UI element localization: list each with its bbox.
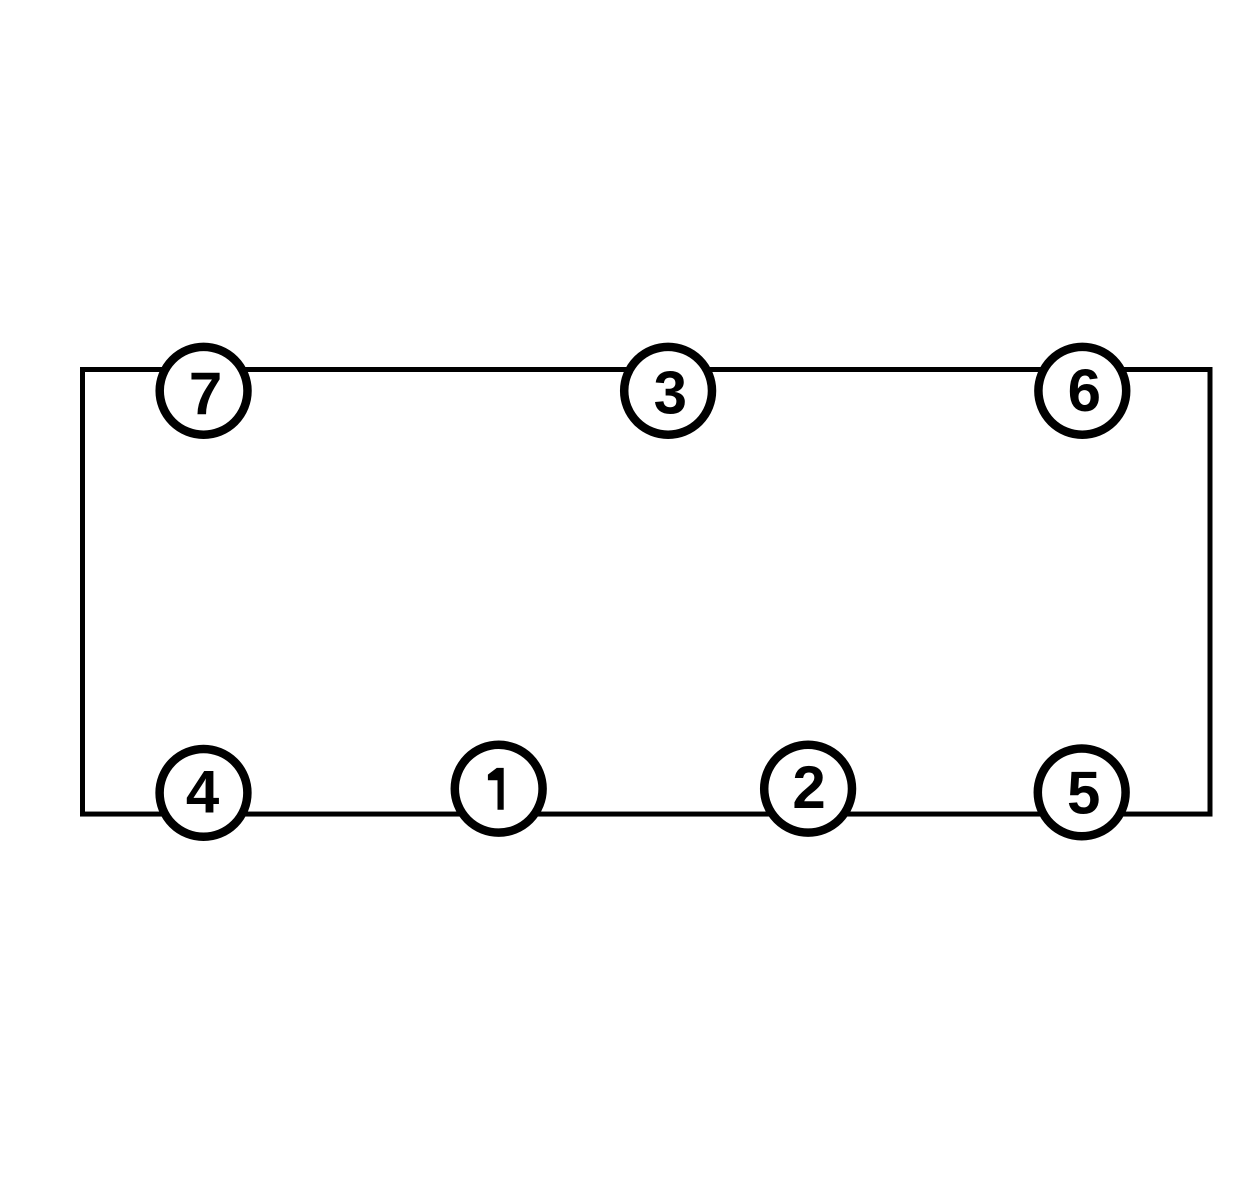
- svg-text:2: 2: [792, 754, 825, 821]
- bolt 5: [1038, 749, 1126, 837]
- gasket outline rectangle: [83, 370, 1211, 815]
- bolt 2: [764, 745, 852, 833]
- bolt 4: [160, 749, 248, 837]
- svg-text:6: 6: [1068, 357, 1101, 424]
- bolt 1: [455, 745, 543, 833]
- svg-text:3: 3: [654, 359, 687, 426]
- svg-text:7: 7: [189, 360, 222, 427]
- svg-text:4: 4: [186, 759, 220, 826]
- svg-text:5: 5: [1067, 759, 1100, 826]
- bolt 6: [1038, 347, 1126, 435]
- bolt 3: [624, 347, 712, 435]
- bolt 7: [160, 347, 248, 435]
